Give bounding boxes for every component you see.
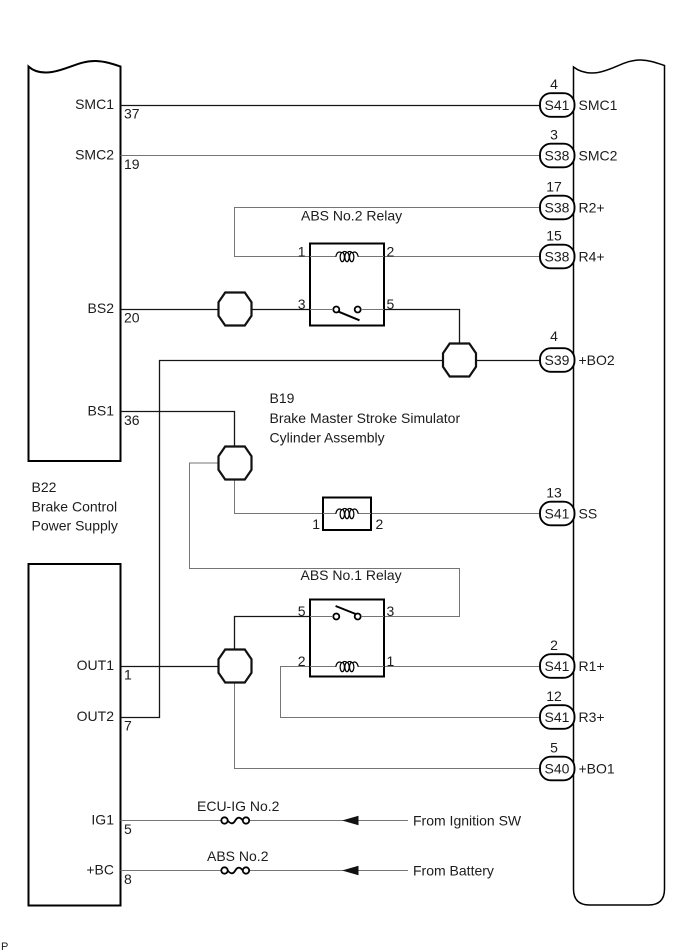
svg-text:ABS No.1 Relay: ABS No.1 Relay (301, 567, 402, 583)
wire R2+ to relay pin1 (gray) (235, 208, 541, 257)
relay ABS No.2 box (310, 244, 384, 326)
svg-text:Brake Control: Brake Control (32, 499, 118, 515)
svg-text:5: 5 (550, 740, 558, 756)
svg-text:8: 8 (124, 871, 132, 887)
svg-text:S38: S38 (545, 249, 570, 265)
wire +BO2 node to S39 oval (dark) (476, 360, 541, 362)
terminal S38 R4+, pin 15 (540, 228, 605, 269)
svg-text:2: 2 (298, 653, 306, 669)
svg-text:Brake Master Stroke Simulator: Brake Master Stroke Simulator (270, 410, 461, 426)
wire node to +BO1 (gray) (235, 682, 541, 769)
svg-text:From Ignition SW: From Ignition SW (413, 813, 522, 829)
wire node to relay pin3 (dark) (252, 309, 311, 311)
relay ABS No.1 switch arm (336, 606, 356, 614)
svg-text:15: 15 (546, 228, 562, 244)
relay ABS No.2 coil (310, 256, 336, 258)
svg-text:36: 36 (124, 412, 140, 428)
wire +BC fuse row (gray) (121, 870, 222, 872)
terminal S41 R1+, pin 2 (540, 637, 605, 678)
svg-text:BS2: BS2 (88, 300, 115, 316)
relay ABS No.1 internal wires (310, 616, 333, 618)
svg-text:R1+: R1+ (579, 658, 605, 674)
svg-text:R2+: R2+ (579, 200, 605, 216)
svg-text:2: 2 (376, 516, 384, 532)
wire SMC2 (gray) (121, 155, 541, 157)
svg-text:B22: B22 (32, 479, 57, 495)
wire node to relay1 pin3 (gray) (190, 463, 460, 617)
svg-text:ECU-IG No.2: ECU-IG No.2 (197, 798, 280, 814)
svg-text:+BO1: +BO1 (579, 761, 615, 777)
svg-text:SS: SS (579, 506, 598, 522)
svg-text:1: 1 (298, 244, 306, 260)
svg-text:ABS No.2: ABS No.2 (207, 848, 269, 864)
svg-text:From Battery: From Battery (413, 863, 494, 879)
svg-text:17: 17 (546, 179, 562, 195)
svg-text:B19: B19 (270, 390, 295, 406)
svg-text:13: 13 (546, 485, 562, 501)
svg-text:S41: S41 (545, 658, 570, 674)
svg-text:37: 37 (124, 106, 140, 122)
arrow from ignition (342, 816, 359, 825)
svg-text:R3+: R3+ (579, 709, 605, 725)
svg-text:+BO2: +BO2 (579, 352, 615, 368)
relay ABS No.2 internal wires (310, 309, 333, 311)
svg-text:5: 5 (298, 603, 306, 619)
wire relay pin2 to R4+ (gray) (385, 256, 540, 258)
svg-text:S41: S41 (545, 709, 570, 725)
wire OUT1 to node (dark) (121, 666, 219, 668)
svg-text:S41: S41 (545, 97, 570, 113)
terminal S41 SS, pin 13 (540, 485, 597, 526)
terminal S40 +BO1, pin 5 (540, 740, 615, 781)
connector B22 lower half (29, 564, 121, 906)
svg-text:S38: S38 (545, 148, 570, 164)
svg-text:S40: S40 (545, 761, 570, 777)
svg-text:S41: S41 (545, 506, 570, 522)
node splice (BS1/SS line) (219, 447, 252, 480)
ECU connector (right, S38/S39/S40/S41) (574, 60, 665, 905)
svg-text:SMC2: SMC2 (579, 148, 618, 164)
relay ABS No.1 switch contacts (333, 614, 339, 620)
svg-text:Power Supply: Power Supply (32, 518, 118, 534)
svg-text:5: 5 (387, 296, 395, 312)
wire SMC1 (dark) (121, 105, 541, 107)
node splice (+BO2 line) (443, 344, 476, 377)
svg-text:+BC: +BC (86, 862, 114, 878)
svg-text:Cylinder Assembly: Cylinder Assembly (270, 430, 385, 446)
fuse ECU-IG No.2 (197, 798, 280, 824)
fuse ABS No.2 (207, 848, 269, 874)
svg-text:4: 4 (550, 328, 558, 344)
relay ABS No.1 coil (310, 666, 336, 668)
wire BS1 to node (dark) (121, 412, 235, 447)
relay ABS No.2 switch arm (339, 312, 360, 321)
terminal S39 +BO2, pin 4 (540, 328, 615, 372)
terminal S38 R2+, pin 17 (540, 179, 605, 220)
terminal S38 SMC2, pin 3 (540, 127, 618, 168)
svg-text:OUT2: OUT2 (77, 708, 115, 724)
svg-text:1: 1 (387, 653, 395, 669)
relay ABS No.1 box (310, 600, 384, 677)
wire BS2 to node (dark) (121, 309, 219, 311)
svg-text:BS1: BS1 (88, 403, 115, 419)
simulator coil (323, 513, 336, 515)
wire node to SS coil (gray) (235, 480, 324, 514)
svg-text:SMC1: SMC1 (579, 97, 618, 113)
svg-text:3: 3 (298, 296, 306, 312)
wire relay1 pin1 to R1+ (gray) (384, 666, 540, 668)
svg-text:1: 1 (124, 667, 132, 683)
svg-text:R4+: R4+ (579, 249, 605, 265)
svg-text:3: 3 (550, 127, 558, 143)
svg-text:ABS No.2 Relay: ABS No.2 Relay (301, 208, 402, 224)
svg-text:12: 12 (546, 688, 562, 704)
svg-text:1: 1 (312, 516, 320, 532)
svg-text:2: 2 (387, 244, 395, 260)
svg-text:7: 7 (124, 718, 132, 734)
node splice (BS2 line) (219, 293, 252, 326)
terminal S41 SMC1, pin 4 (540, 76, 618, 117)
terminal S41 R3+, pin 12 (540, 688, 605, 729)
wire relay pin5 to node +BO2 (dark) (384, 310, 460, 345)
relay ABS No.2 switch contacts (333, 307, 339, 313)
svg-text:5: 5 (124, 821, 132, 837)
svg-text:19: 19 (124, 156, 140, 172)
wire SS coil to S41 SS (gray) (371, 513, 540, 515)
wire IG1 fuse row (gray) (121, 820, 222, 822)
svg-text:2: 2 (550, 637, 558, 653)
simulator coil box (323, 498, 371, 531)
svg-text:S39: S39 (545, 352, 570, 368)
node splice (OUT1 line) (219, 650, 252, 683)
wire OUT2 to +BO2 node to S39 (dark) (121, 361, 444, 718)
connector B22 upper half (Brake Control Power Supply) (29, 61, 121, 461)
wire relay1 pin2 to R3+ (gray) (281, 667, 541, 718)
svg-text:IG1: IG1 (91, 812, 114, 828)
svg-text:4: 4 (550, 76, 558, 92)
svg-text:S38: S38 (545, 200, 570, 216)
svg-text:3: 3 (387, 603, 395, 619)
svg-text:OUT1: OUT1 (77, 657, 115, 673)
svg-text:P: P (1, 941, 8, 952)
wire node to relay1 pin5 (dark) (235, 617, 311, 651)
svg-text:SMC2: SMC2 (75, 147, 114, 163)
svg-text:20: 20 (124, 310, 140, 326)
svg-text:SMC1: SMC1 (75, 96, 114, 112)
arrow from battery (342, 866, 359, 875)
